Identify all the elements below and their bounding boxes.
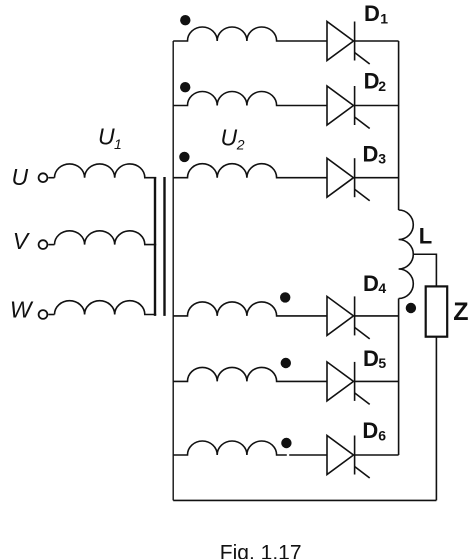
polarity dot row3 [179, 152, 189, 162]
polarity dot row2 [180, 82, 190, 92]
transformer core bar left [154, 177, 156, 316]
winding U2 row4 [173, 302, 327, 316]
svg-text:5: 5 [378, 355, 386, 371]
svg-text:D: D [364, 1, 380, 26]
svg-text:1: 1 [114, 136, 122, 152]
inductor L interphase reactor [399, 210, 414, 299]
svg-text:W: W [10, 297, 34, 323]
polarity dot row4 [280, 292, 290, 302]
winding U2 row5 [173, 367, 327, 381]
winding U2 row3 [173, 164, 327, 178]
svg-text:U: U [12, 164, 29, 190]
winding U2 row6 [173, 441, 327, 455]
svg-text:D: D [363, 346, 379, 371]
wire W stub [48, 314, 54, 316]
polarity dot row6 [281, 438, 291, 448]
wire cathode bus bottom group [398, 299, 400, 456]
wire V stub [48, 244, 54, 246]
svg-text:D: D [363, 271, 379, 296]
svg-text:2: 2 [378, 78, 386, 94]
winding U1 phase V [55, 231, 157, 245]
svg-text:4: 4 [378, 280, 386, 296]
wire cathode bus top group [398, 41, 400, 210]
transformer core bar right [163, 177, 165, 316]
winding U1 phase U [55, 164, 157, 178]
svg-text:U: U [221, 125, 238, 151]
winding U2 row1 [173, 27, 327, 41]
winding U2 row2 [173, 91, 327, 105]
thyristor D2 [327, 86, 399, 129]
svg-text:V: V [13, 228, 31, 254]
secondary neutral bus [172, 41, 174, 500]
node V terminal circle [39, 240, 48, 249]
thyristor D6 [327, 436, 399, 479]
wire center tap to load [413, 254, 436, 286]
svg-text:3: 3 [378, 151, 386, 167]
node W terminal circle [39, 310, 48, 319]
winding U1 phase W [55, 301, 157, 315]
thyristor D1 [327, 22, 399, 65]
svg-text:D: D [362, 418, 378, 443]
node U terminal circle [39, 173, 48, 182]
svg-text:1: 1 [380, 10, 388, 26]
polarity dot L [406, 303, 416, 313]
svg-text:6: 6 [378, 427, 386, 443]
svg-text:U: U [98, 124, 115, 150]
wire neutral return bottom [173, 499, 436, 501]
wire load bottom [435, 337, 437, 501]
svg-text:Z: Z [453, 298, 468, 326]
svg-text:Fig. 1.17: Fig. 1.17 [220, 542, 302, 559]
polarity dot row1 [180, 15, 190, 25]
thyristor D4 [327, 296, 399, 339]
load Z rectangle [426, 286, 448, 336]
svg-text:D: D [363, 141, 379, 166]
svg-text:2: 2 [236, 137, 245, 153]
svg-text:L: L [419, 224, 432, 249]
polarity dot row5 [281, 358, 291, 368]
wire U stub [48, 177, 54, 179]
thyristor D3 [327, 158, 399, 201]
svg-text:D: D [364, 69, 380, 94]
thyristor D5 [327, 362, 399, 405]
